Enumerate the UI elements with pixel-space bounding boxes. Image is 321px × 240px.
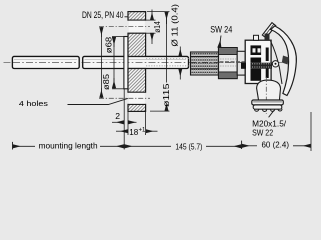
dim mounting length — [13, 141, 124, 150]
svg-text:ø68: ø68 — [104, 36, 113, 53]
svg-text:ø14: ø14 — [153, 21, 162, 33]
head body — [245, 40, 282, 84]
svg-text:ø115: ø115 — [162, 83, 171, 107]
svg-text:SW 22: SW 22 — [252, 127, 273, 137]
flange plate (hatched, with bolt holes) — [99, 12, 150, 112]
svg-text:Ø 11 (0.4): Ø 11 (0.4) — [169, 4, 179, 47]
cover clamp screw on disc — [282, 56, 289, 65]
element end circle — [272, 61, 278, 67]
dim ø85 — [101, 27, 111, 98]
gland centerline — [265, 77, 267, 114]
svg-text:mounting length: mounting length — [39, 141, 98, 150]
threaded nipple — [191, 52, 219, 75]
svg-text:SW 24: SW 24 — [210, 25, 232, 35]
svg-text:ø85: ø85 — [102, 73, 111, 90]
dim 145 (5.7) — [125, 143, 241, 152]
stem (thermowell rod) — [12, 56, 188, 68]
svg-text:60 (2.4): 60 (2.4) — [262, 141, 290, 150]
element tube striated — [251, 63, 273, 69]
leader DN — [125, 16, 129, 18]
label M20x1.5 / SW 22 — [252, 110, 287, 137]
dim line ø14 — [146, 10, 162, 45]
svg-text:145 (5.7): 145 (5.7) — [175, 143, 202, 152]
cover disc (crescent) — [271, 26, 297, 96]
bolt hole centerlines — [99, 26, 150, 28]
svg-text:4 holes: 4 holes — [19, 99, 48, 108]
centerline main axis — [4, 61, 283, 63]
hinge lug — [254, 35, 259, 40]
flange raised face (2mm strip) — [124, 37, 128, 89]
svg-text:+1: +1 — [139, 128, 147, 134]
collar between nut and head — [237, 51, 245, 75]
dim Ø 11 (0.4) — [169, 4, 180, 80]
bolt hole top (white gap) — [129, 21, 145, 33]
hex nut SW24 — [219, 48, 238, 79]
bolt hole bottom (white gap) — [129, 93, 145, 104]
svg-text:DN 25, PN 40: DN 25, PN 40 — [82, 10, 124, 20]
svg-text:2: 2 — [115, 111, 120, 121]
stem shading lines after flange — [146, 59, 190, 66]
bottom dims: extension lines — [13, 89, 312, 151]
dim 18+1 (flange thickness) — [116, 112, 158, 138]
dim 2 (raised face) — [112, 111, 137, 122]
cable gland band 2 (SW22 nut, scalloped bottom) — [253, 105, 282, 112]
leader 4 holes — [68, 98, 128, 104]
leader SW24 — [219, 36, 221, 48]
dim ø68 — [104, 36, 124, 89]
hinge screw bar (tilted) — [262, 23, 276, 38]
dim 60 (2.4) — [242, 141, 310, 150]
head internals: terminal block (black) — [241, 45, 279, 80]
dim ø115 — [147, 12, 171, 112]
cable gland M20x1.5 band 1 — [252, 100, 283, 105]
svg-text:18: 18 — [129, 127, 138, 137]
head bottom shoulder — [257, 80, 281, 100]
hinge base block — [265, 34, 270, 41]
stem silhouette lines through threaded nipple — [191, 57, 251, 69]
